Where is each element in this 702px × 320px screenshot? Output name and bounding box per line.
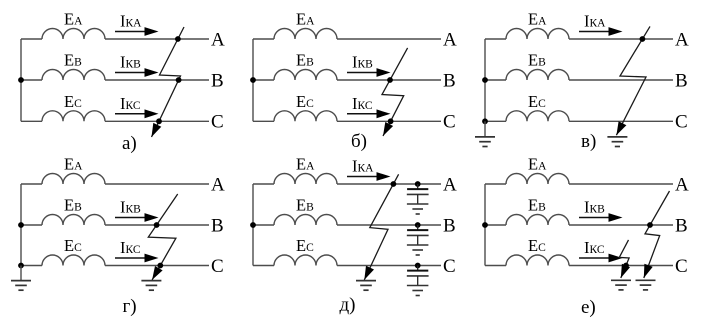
svg-text:IКС: IКС — [120, 94, 141, 113]
wire - phase B line (panel д) — [337, 224, 441, 226]
ground - neutral ground (panel г) — [11, 280, 31, 282]
winding EА phase A (panel д) — [274, 174, 337, 185]
winding EА phase A (panel в) — [506, 29, 569, 39]
svg-text:C: C — [211, 112, 224, 133]
wire - left neutral bus (panel в) — [484, 39, 486, 121]
winding EС phase C (panel в) — [506, 111, 569, 122]
wire - phase A line (panel д) — [337, 183, 441, 185]
fault arrowhead - B bolt (panel е) — [644, 264, 653, 278]
node - fault on B (panel г) — [154, 222, 160, 228]
svg-text:EА: EА — [528, 155, 547, 174]
svg-text:IКС: IКС — [352, 94, 373, 113]
svg-text:A: A — [443, 174, 457, 195]
current arrow I_KВ (panel е) — [579, 217, 611, 219]
svg-text:A: A — [675, 29, 689, 50]
node - fault on B (panel а) — [176, 77, 182, 83]
capacitor CС plate 2 (panel д) — [407, 275, 429, 277]
svg-text:B: B — [443, 215, 456, 236]
fault arrowhead (panel б) — [383, 122, 393, 136]
capacitor CА plate 1 (panel д) — [407, 188, 428, 190]
wire - capacitor stub A (panel д) — [417, 184, 419, 189]
node - bus junction B (panel е) — [482, 222, 488, 228]
wire - phase A stub from bus (panel д) — [253, 183, 274, 185]
wire - phase C stub from bus (panel в) — [485, 120, 506, 122]
fault bolt - phase C to ground (panel е) — [619, 240, 629, 278]
wire - phase B line (panel е) — [569, 224, 673, 226]
node - bus junction B (panel в) — [482, 77, 488, 83]
svg-text:EВ: EВ — [296, 51, 314, 70]
fault arrowhead (panel д) — [364, 266, 374, 280]
ground - fault ground left (panel е) — [611, 279, 631, 281]
winding EА phase A (panel е) — [506, 174, 569, 185]
svg-text:IКС: IКС — [584, 238, 605, 257]
svg-text:EС: EС — [528, 236, 546, 255]
wire - phase B stub from bus (panel г) — [21, 224, 42, 226]
wire - phase A stub from bus (panel б) — [253, 38, 274, 40]
wire - phase A stub from bus (panel е) — [485, 183, 506, 185]
current arrow I_KС (panel г) — [115, 257, 147, 259]
node - fault on B (panel е) — [647, 222, 653, 228]
wire - phase B line (panel а) — [105, 79, 209, 81]
svg-text:C: C — [443, 256, 456, 277]
svg-text:IКС: IКС — [120, 238, 141, 257]
wire - phase C line (panel д) — [337, 265, 441, 267]
wire - phase A line (panel г) — [105, 183, 209, 185]
svg-text:B: B — [211, 215, 224, 236]
svg-text:IКА: IКА — [584, 12, 606, 31]
svg-text:EС: EС — [296, 92, 314, 111]
svg-text:EС: EС — [296, 236, 314, 255]
node - fault on C (panel г) — [157, 263, 163, 269]
winding EВ phase B (panel в) — [506, 70, 569, 81]
wire - phase C stub from bus (panel г) — [21, 265, 42, 267]
fault arrowhead (panel г) — [152, 266, 163, 280]
capacitor CВ plate 1 (panel д) — [407, 229, 428, 231]
ground - capacitance ground B (panel д) — [407, 244, 429, 246]
svg-text:EВ: EВ — [296, 196, 314, 215]
wire - phase C stub from bus (panel е) — [485, 265, 506, 267]
svg-text:B: B — [675, 70, 688, 91]
current arrow I_KА (panel д) — [347, 176, 379, 178]
svg-text:IКА: IКА — [120, 12, 142, 31]
wire - bus ground stub (panel г) — [20, 266, 22, 281]
wire - capacitor to ground stub C (panel д) — [417, 276, 419, 286]
svg-text:EС: EС — [64, 92, 82, 111]
svg-text:IКВ: IКВ — [120, 53, 141, 72]
wire - phase A stub from bus (panel в) — [485, 38, 506, 40]
wire - phase B stub from bus (panel б) — [253, 79, 274, 81]
node - bus junction C (panel в) — [482, 118, 488, 124]
svg-text:IКВ: IКВ — [584, 198, 605, 217]
winding EА phase A (panel б) — [274, 29, 337, 39]
current arrow I_KВ (panel а) — [115, 72, 147, 74]
svg-text:EА: EА — [296, 155, 315, 174]
wire - capacitor stub C (panel д) — [417, 266, 419, 271]
svg-text:EС: EС — [528, 92, 546, 111]
svg-text:A: A — [211, 29, 225, 50]
fault bolt - line A to ground (panel д) — [364, 174, 398, 280]
winding EВ phase B (panel а) — [42, 70, 105, 81]
current arrow I_KВ (panel г) — [115, 217, 147, 219]
svg-text:EВ: EВ — [528, 51, 546, 70]
svg-text:IКА: IКА — [352, 157, 374, 176]
svg-text:EА: EА — [528, 10, 547, 29]
fault bolt - two-phase-to-ground B-C (panel г) — [148, 194, 177, 280]
winding EВ phase B (panel б) — [274, 70, 337, 81]
winding EВ phase B (panel г) — [42, 215, 105, 226]
wire - phase A line (panel б) — [337, 38, 441, 40]
ground - fault ground (panel г) — [141, 280, 161, 282]
svg-text:д): д) — [340, 295, 356, 316]
wire - phase A line (panel в) — [569, 38, 673, 40]
node - bus junction B (panel д) — [250, 222, 256, 228]
wire - left neutral bus (panel г) — [20, 184, 22, 266]
current arrow I_KА (panel в) — [579, 31, 611, 33]
wire - left neutral bus (panel б) — [252, 39, 254, 121]
capacitor CС plate 1 (panel д) — [407, 270, 428, 272]
wire - phase A stub from bus (panel а) — [21, 38, 42, 40]
fault arrowhead (panel а) — [152, 123, 162, 137]
node - fault on C (panel а) — [156, 118, 162, 124]
svg-text:а): а) — [122, 133, 137, 154]
wire - phase B line (panel б) — [337, 79, 441, 81]
fault bolt - three-phase short circuit (panel а) — [152, 27, 185, 137]
ground - neutral ground (panel в) — [475, 136, 495, 138]
ground - fault ground (panel д) — [356, 280, 376, 282]
wire - phase C line (panel е) — [569, 265, 673, 267]
svg-text:е): е) — [581, 297, 596, 318]
node - capacitance tap on B (panel д) — [415, 222, 421, 228]
wire - phase A line (panel а) — [105, 38, 209, 40]
wire - capacitor stub B (panel д) — [417, 225, 419, 230]
svg-text:C: C — [675, 256, 688, 277]
ground - fault ground (panel в) — [607, 136, 627, 138]
svg-text:EА: EА — [296, 10, 315, 29]
node - capacitance tap on A (panel д) — [415, 181, 421, 187]
svg-text:B: B — [443, 70, 456, 91]
node - bus junction B (panel б) — [250, 77, 256, 83]
node - capacitance tap on C (panel д) — [415, 263, 421, 269]
svg-text:A: A — [675, 174, 689, 195]
svg-text:C: C — [443, 112, 456, 133]
node - fault on C (panel е) — [623, 263, 629, 269]
winding EА phase A (panel г) — [42, 174, 105, 185]
ground - fault ground right (panel е) — [636, 279, 656, 281]
wire - capacitor to ground stub A (panel д) — [417, 194, 419, 204]
wire - left neutral bus (panel а) — [20, 39, 22, 121]
node - bus junction B (panel г) — [18, 222, 24, 228]
ground - capacitance ground A (panel д) — [407, 203, 429, 205]
current arrow I_KА (panel а) — [115, 31, 147, 33]
svg-text:IКВ: IКВ — [352, 53, 373, 72]
svg-text:EВ: EВ — [528, 196, 546, 215]
current arrow I_KС (panel е) — [579, 257, 611, 259]
svg-text:в): в) — [581, 131, 596, 152]
fault arrowhead (panel в) — [616, 121, 626, 135]
svg-text:б): б) — [351, 131, 367, 152]
winding EВ phase B (panel д) — [274, 215, 337, 226]
fault arrowhead - C bolt (panel е) — [621, 264, 630, 278]
svg-text:B: B — [675, 215, 688, 236]
capacitor CА plate 2 (panel д) — [407, 193, 429, 195]
wire - phase B stub from bus (panel е) — [485, 224, 506, 226]
winding EА phase A (panel а) — [42, 29, 105, 39]
svg-text:EА: EА — [64, 10, 83, 29]
svg-text:C: C — [211, 256, 224, 277]
svg-text:A: A — [443, 29, 457, 50]
wire - phase C line (panel в) — [569, 120, 673, 122]
svg-text:г): г) — [123, 296, 137, 317]
wire - phase A line (panel е) — [569, 183, 673, 185]
wire - bus ground stub (panel в) — [484, 121, 486, 137]
wire - phase A stub from bus (panel г) — [21, 183, 42, 185]
ground - capacitance ground C (panel д) — [407, 285, 429, 287]
capacitor CВ plate 2 (panel д) — [407, 234, 429, 236]
svg-text:EВ: EВ — [64, 196, 82, 215]
winding EС phase C (panel е) — [506, 255, 569, 265]
node - bus junction C (panel г) — [18, 263, 24, 269]
svg-text:B: B — [211, 70, 224, 91]
wire - phase C line (panel а) — [105, 120, 209, 122]
winding EС phase C (panel а) — [42, 111, 105, 122]
wire - phase B line (panel в) — [569, 79, 673, 81]
svg-text:C: C — [675, 112, 688, 133]
node - fault on C (panel б) — [388, 118, 394, 124]
wire - phase C line (panel г) — [105, 265, 209, 267]
wire - phase C line (panel б) — [337, 120, 441, 122]
fault bolt - phase B to ground (panel е) — [644, 191, 670, 278]
winding EС phase C (panel б) — [274, 111, 337, 122]
svg-text:IКВ: IКВ — [120, 198, 141, 217]
wire - phase B stub from bus (panel а) — [21, 79, 42, 81]
wire - phase C stub from bus (panel б) — [253, 120, 274, 122]
wire - left neutral bus (panel е) — [484, 184, 486, 266]
wire - phase C stub from bus (panel д) — [253, 265, 274, 267]
current arrow I_KС (panel а) — [115, 113, 147, 115]
current arrow I_KС (panel б) — [347, 113, 379, 115]
wire - phase B stub from bus (panel д) — [253, 224, 274, 226]
winding EВ phase B (panel е) — [506, 215, 569, 226]
wire - phase B stub from bus (panel в) — [485, 79, 506, 81]
winding EС phase C (panel д) — [274, 255, 337, 265]
current arrow I_KВ (panel б) — [347, 72, 379, 74]
svg-text:EС: EС — [64, 236, 82, 255]
node - fault on A (panel а) — [175, 36, 181, 42]
svg-text:EА: EА — [64, 155, 83, 174]
svg-text:EВ: EВ — [64, 51, 82, 70]
wire - capacitor to ground stub B (panel д) — [417, 235, 419, 245]
winding EС phase C (panel г) — [42, 255, 105, 265]
wire - phase C stub from bus (panel а) — [21, 120, 42, 122]
node - fault on A (panel д) — [391, 181, 397, 187]
node - fault on A (panel в) — [640, 36, 646, 42]
fault bolt - single line-to-ground on A (panel в) — [616, 26, 650, 135]
wire - phase B line (panel г) — [105, 224, 209, 226]
fault bolt - two-phase short circuit B-C (panel б) — [382, 48, 408, 136]
node - fault on B (panel б) — [387, 77, 393, 83]
wire - left neutral bus (panel д) — [252, 184, 254, 266]
svg-text:A: A — [211, 174, 225, 195]
node - bus junction B (panel а) — [18, 77, 24, 83]
